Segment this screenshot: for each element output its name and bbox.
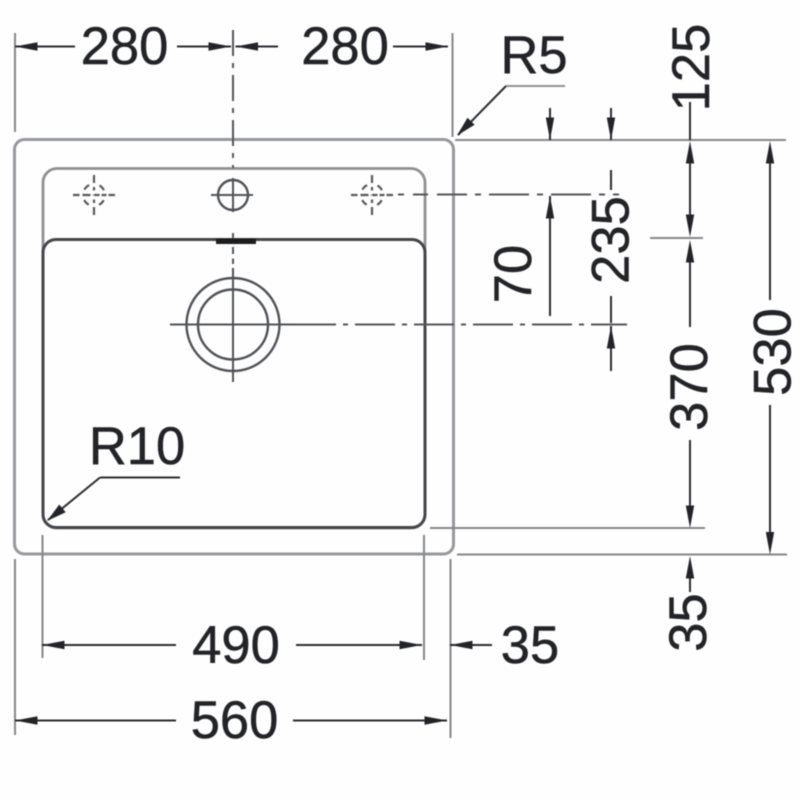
svg-text:530: 530 bbox=[744, 308, 800, 396]
svg-text:125: 125 bbox=[662, 24, 721, 112]
svg-text:280: 280 bbox=[301, 17, 389, 76]
svg-text:R10: R10 bbox=[89, 417, 185, 476]
svg-text:370: 370 bbox=[660, 343, 719, 431]
svg-text:490: 490 bbox=[192, 616, 280, 675]
svg-text:280: 280 bbox=[81, 17, 169, 76]
svg-text:35: 35 bbox=[659, 593, 718, 651]
svg-text:560: 560 bbox=[191, 691, 279, 750]
svg-text:70: 70 bbox=[484, 245, 543, 303]
svg-text:235: 235 bbox=[582, 196, 641, 284]
svg-text:R5: R5 bbox=[500, 26, 567, 85]
svg-text:35: 35 bbox=[501, 616, 559, 675]
